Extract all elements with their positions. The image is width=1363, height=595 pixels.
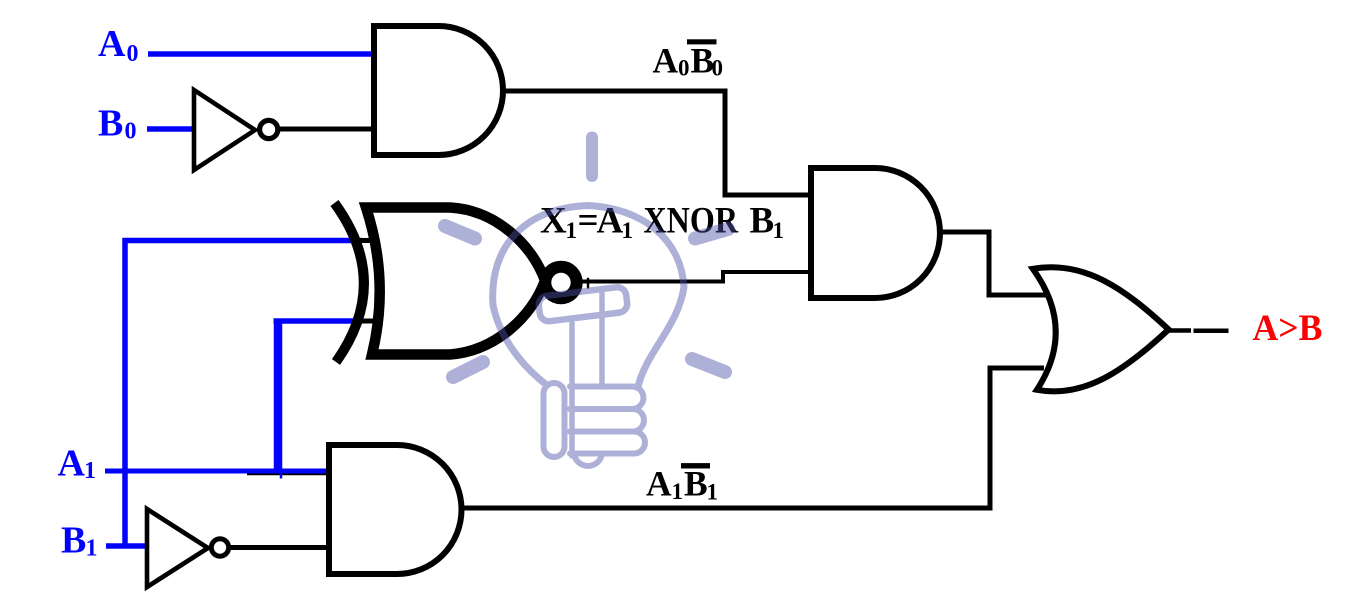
svg-text:A>B: A>B: [1253, 308, 1323, 349]
svg-text:1: 1: [566, 218, 578, 243]
svg-text:1: 1: [773, 218, 785, 243]
watermark finger 3: [570, 432, 645, 454]
AND gate U3 (A1 & not B1): [329, 445, 462, 574]
node: tick artifact on XNOR output wire: [587, 278, 589, 289]
wire: B0 input (blue) to NOT1: [147, 126, 196, 132]
watermark collar bar: [538, 286, 628, 322]
svg-text:B: B: [98, 103, 123, 145]
watermark finger 1: [570, 387, 643, 410]
XNOR gate input stubs: [358, 238, 380, 243]
svg-text:0: 0: [678, 56, 690, 81]
svg-text:0: 0: [125, 119, 137, 145]
wire: A0 input (blue) to AND1: [148, 51, 376, 57]
watermark: light bulb logo overlay: [445, 138, 728, 467]
watermark ray lower-left: [453, 362, 483, 377]
OR gate (output stage): [1033, 267, 1169, 391]
NOT gate (inverter) on B0: [194, 90, 255, 170]
NOT gate B1 bubble: [211, 539, 228, 556]
wire: NOT1 output to AND1: [277, 127, 376, 132]
svg-text:0: 0: [712, 56, 724, 81]
svg-text:A: A: [646, 464, 672, 504]
wire: OR gate output segment 2: [1194, 329, 1229, 334]
wire: OR gate output segment 1: [1167, 328, 1191, 333]
watermark ray upper-right: [695, 229, 728, 239]
wire: vertical blue from XNOR bottom input down to A1 line: [274, 319, 283, 474]
wire: thin black artifact under A1 wire near junction: [247, 473, 332, 475]
svg-text:B: B: [684, 464, 708, 504]
svg-text:1: 1: [672, 479, 684, 504]
svg-text:A: A: [653, 41, 679, 81]
watermark finger 2: [570, 409, 644, 432]
svg-text:B: B: [61, 520, 86, 562]
svg-text:A: A: [58, 443, 86, 485]
watermark ray lower-right: [692, 359, 725, 372]
wire: XNOR bottom input branch (blue): [274, 318, 363, 324]
wire: AND2 output down to OR top input: [938, 232, 1046, 295]
watermark stem right line: [599, 293, 605, 387]
AND gate U1 (A0 & not B0): [374, 26, 503, 155]
wire: XNOR output to AND2 bottom input with jog: [576, 272, 811, 282]
watermark bulb glass: [493, 206, 684, 388]
wire: B1 input (blue) to NOT2: [106, 543, 149, 549]
wire: AND1 output A0B0' down to AND2 top input: [501, 91, 811, 195]
svg-text:1: 1: [707, 480, 719, 505]
watermark stem left line: [569, 323, 575, 456]
svg-text:B: B: [750, 201, 775, 242]
NOT gate B0 bubble: [260, 120, 278, 138]
AND gate U2 (middle right): [811, 168, 940, 298]
svg-text:A: A: [98, 23, 126, 65]
node: junction of vertical with A1 wire: [280, 473, 283, 479]
svg-text:1: 1: [86, 536, 98, 562]
XNOR gate output bubble: [545, 267, 576, 298]
wire: A1 input (blue) to AND3: [105, 469, 331, 474]
NOT gate (inverter) on B1: [147, 509, 208, 587]
wire: AND3 output A1B1' up to OR bottom input: [459, 368, 1044, 508]
XNOR gate leading double arc: [335, 203, 364, 362]
XNOR gate body: [366, 208, 545, 355]
svg-text:1: 1: [622, 218, 634, 243]
svg-text:1: 1: [84, 458, 96, 484]
watermark bulb tip nub: [574, 452, 602, 466]
wire: vertical blue from XNOR top input down to B1 line: [122, 238, 128, 546]
watermark ray top: [586, 138, 598, 177]
wire: NOT2 output to AND3: [229, 545, 331, 550]
svg-text:0: 0: [127, 41, 139, 67]
watermark thumb: [544, 383, 565, 457]
wire: XNOR top input branch (blue): [123, 238, 363, 244]
watermark ray upper-left: [445, 226, 475, 239]
